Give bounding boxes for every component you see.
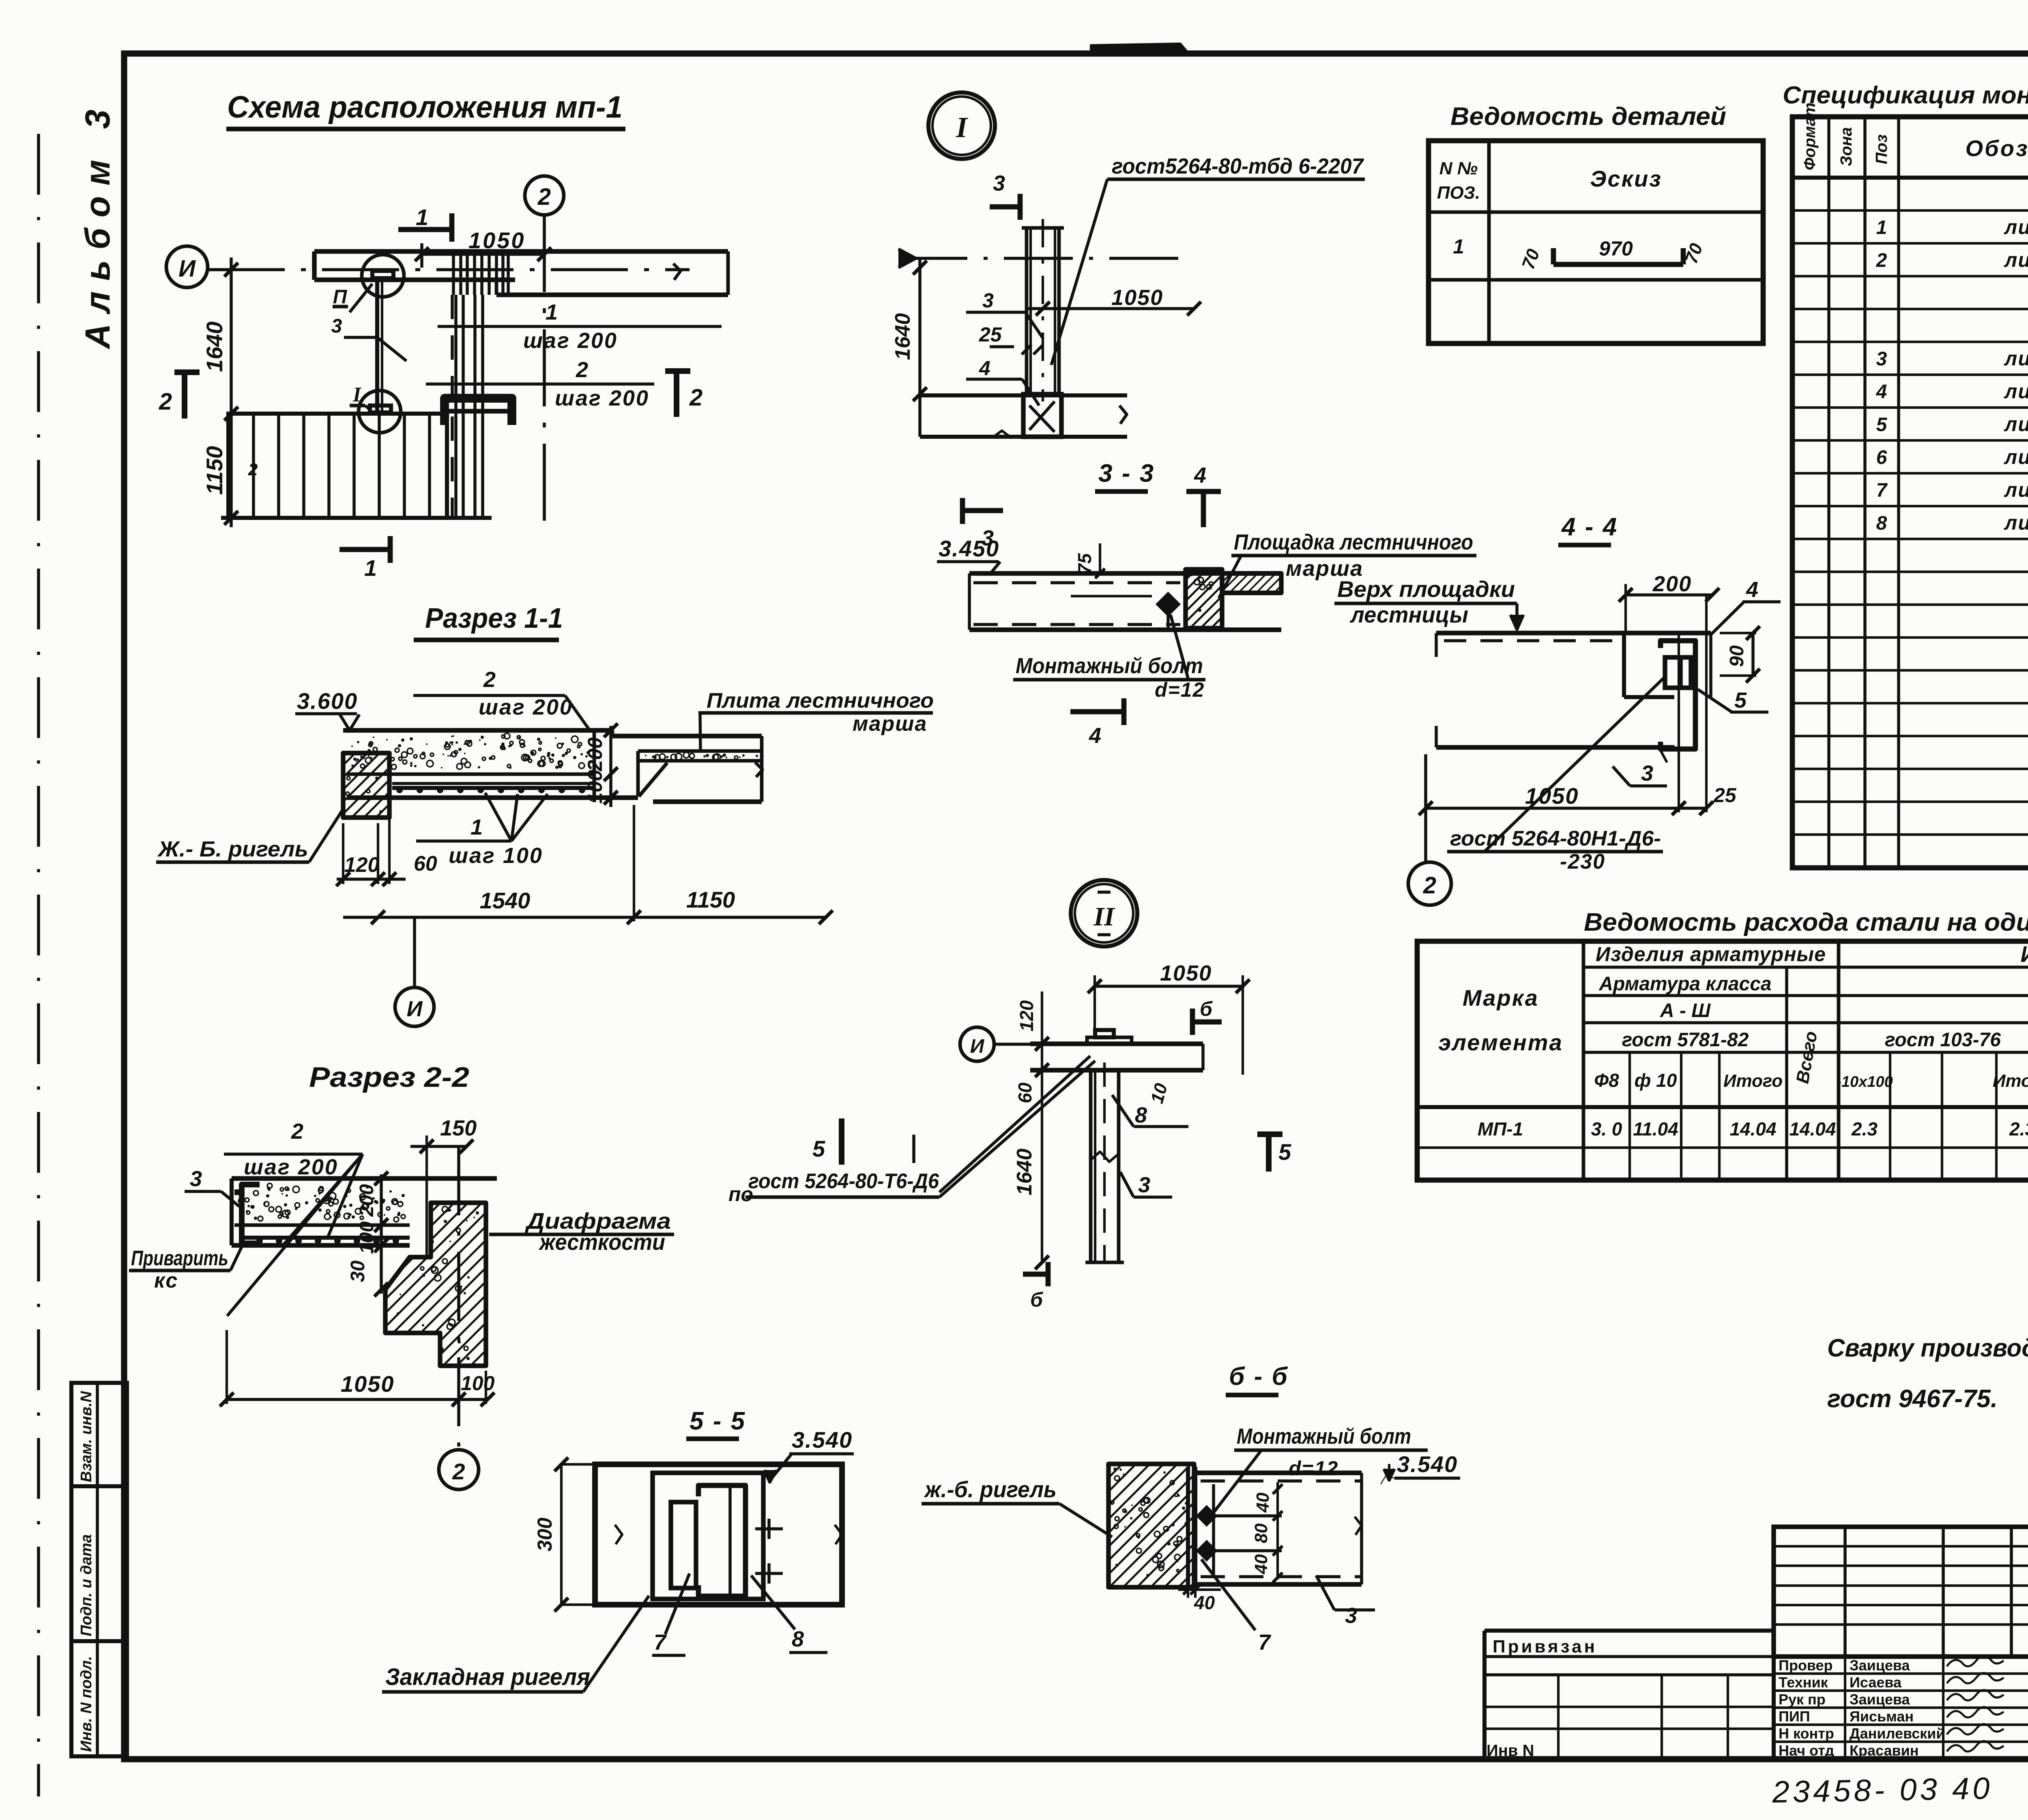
svg-text:1: 1 — [470, 815, 483, 839]
svg-text:А - Ш: А - Ш — [1660, 1000, 1711, 1022]
svg-text:Монтажный болт: Монтажный болт — [1016, 654, 1203, 678]
svg-text:Привязан: Привязан — [1493, 1637, 1597, 1657]
svg-text:5: 5 — [1876, 414, 1888, 436]
svg-text:Взам. инв.N: Взам. инв.N — [78, 1391, 95, 1482]
svg-text:8: 8 — [792, 1627, 804, 1651]
svg-text:100: 100 — [584, 770, 606, 804]
svg-text:120: 120 — [344, 853, 380, 877]
svg-text:100: 100 — [461, 1372, 495, 1395]
svg-text:1540: 1540 — [480, 888, 531, 913]
svg-text:30: 30 — [347, 1260, 369, 1282]
svg-text:Нач отд: Нач отд — [1779, 1742, 1834, 1759]
svg-text:3.450: 3.450 — [939, 536, 999, 561]
svg-text:3: 3 — [1345, 1603, 1357, 1628]
svg-text:лестницы: лестницы — [1349, 602, 1468, 627]
svg-text:1050: 1050 — [1160, 961, 1212, 985]
svg-text:8: 8 — [1135, 1103, 1147, 1127]
svg-text:Заицева: Заицева — [1850, 1657, 1910, 1674]
svg-text:Поз: Поз — [1873, 134, 1891, 164]
svg-text:Исаева: Исаева — [1850, 1674, 1902, 1691]
svg-text:Яисьман: Яисьман — [1850, 1708, 1914, 1725]
svg-text:Формат: Формат — [1801, 103, 1819, 170]
svg-text:Инв N: Инв N — [1487, 1742, 1534, 1760]
svg-text:1640: 1640 — [1013, 1148, 1036, 1195]
svg-text:2: 2 — [159, 388, 172, 415]
svg-text:7: 7 — [1876, 480, 1888, 501]
svg-text:1: 1 — [364, 555, 377, 581]
svg-text:Итого: Итого — [1993, 1071, 2028, 1091]
svg-text:1640: 1640 — [891, 313, 915, 360]
svg-text:5: 5 — [812, 1136, 825, 1161]
svg-text:60: 60 — [414, 852, 437, 876]
svg-text:шаг 200: шаг 200 — [479, 695, 573, 719]
svg-text:4: 4 — [1089, 723, 1101, 748]
svg-text:марша: марша — [853, 712, 927, 736]
svg-text:ПИП: ПИП — [1779, 1708, 1810, 1725]
svg-text:Заицева: Заицева — [1850, 1691, 1910, 1708]
svg-text:23458- 03 40: 23458- 03 40 — [1772, 1771, 1993, 1809]
svg-text:3.540: 3.540 — [792, 1427, 853, 1453]
svg-text:200: 200 — [1652, 572, 1692, 596]
svg-text:Арматура класса: Арматура класса — [1598, 973, 1771, 995]
svg-text:5: 5 — [1734, 688, 1747, 713]
svg-text:гост5264-80-тбд 6-2207: гост5264-80-тбд 6-2207 — [1112, 154, 1364, 178]
svg-text:1150: 1150 — [686, 887, 735, 912]
svg-text:3 - 3: 3 - 3 — [1098, 459, 1155, 487]
svg-text:Схема расположения мп-1: Схема расположения мп-1 — [227, 90, 623, 124]
svg-text:гост 5781-82: гост 5781-82 — [1622, 1029, 1749, 1051]
svg-text:И: И — [178, 255, 196, 282]
svg-text:Провер: Провер — [1779, 1657, 1833, 1674]
svg-text:150: 150 — [440, 1116, 477, 1140]
svg-text:Зона: Зона — [1837, 127, 1855, 166]
svg-text:3.600: 3.600 — [297, 688, 358, 714]
svg-text:2: 2 — [1876, 250, 1887, 271]
svg-text:40: 40 — [1251, 1554, 1271, 1574]
svg-text:II: II — [1093, 902, 1115, 931]
svg-text:Площадка лестничного: Площадка лестничного — [1234, 530, 1473, 554]
svg-text:3: 3 — [1138, 1173, 1150, 1197]
svg-text:Спецификация монолитной ж.-б: Спецификация монолитной ж.-б. лестничной… — [1783, 82, 2028, 109]
svg-text:Ф8: Ф8 — [1594, 1070, 1619, 1091]
svg-text:2.3: 2.3 — [1851, 1118, 1878, 1140]
svg-text:75: 75 — [1074, 553, 1095, 574]
svg-text:ПОЗ.: ПОЗ. — [1437, 183, 1480, 203]
svg-text:3: 3 — [982, 289, 994, 312]
svg-text:гост 9467-75.: гост 9467-75. — [1827, 1385, 1998, 1413]
svg-text:300: 300 — [533, 1517, 556, 1552]
svg-text:Разрез 1-1: Разрез 1-1 — [425, 602, 563, 634]
svg-text:4: 4 — [1746, 577, 1758, 602]
svg-text:Ведомость расхода стали: Ведомость расхода стали на один элемент,… — [1584, 908, 2028, 936]
svg-text:5 - 5: 5 - 5 — [690, 1407, 746, 1435]
svg-text:6: 6 — [1876, 447, 1887, 468]
svg-text:2: 2 — [689, 384, 702, 411]
svg-text:элемента: элемента — [1438, 1030, 1563, 1055]
svg-text:I: I — [956, 111, 969, 144]
svg-text:1050: 1050 — [1111, 285, 1163, 310]
svg-text:-230: -230 — [1560, 850, 1605, 874]
svg-text:2: 2 — [291, 1119, 303, 1144]
svg-text:Верх площадки: Верх площадки — [1337, 576, 1515, 602]
svg-text:d=12: d=12 — [1289, 1457, 1338, 1480]
svg-text:б: б — [1200, 998, 1213, 1020]
svg-text:Техник: Техник — [1779, 1674, 1828, 1691]
svg-text:Приварить: Приварить — [131, 1247, 228, 1270]
svg-text:11.04: 11.04 — [1633, 1118, 1678, 1140]
svg-text:Сварку производить электродам: Сварку производить электродами типа Э-42 — [1827, 1334, 2028, 1362]
svg-text:шаг 200: шаг 200 — [244, 1155, 338, 1179]
svg-text:шаг 200: шаг 200 — [555, 386, 649, 410]
svg-text:ф 10: ф 10 — [1635, 1070, 1677, 1091]
svg-text:d=12: d=12 — [1155, 678, 1205, 701]
svg-text:Эскиз: Эскиз — [1590, 166, 1662, 191]
svg-text:I: I — [352, 383, 362, 406]
svg-text:3: 3 — [993, 171, 1005, 195]
svg-text:шаг 200: шаг 200 — [523, 328, 618, 353]
svg-text:Данилевский: Данилевский — [1850, 1725, 1945, 1742]
svg-text:3: 3 — [1641, 761, 1653, 786]
svg-text:лист 29: лист 29 — [2004, 446, 2028, 468]
svg-text:4 - 4: 4 - 4 — [1561, 513, 1618, 541]
svg-text:25: 25 — [979, 323, 1002, 346]
svg-text:2: 2 — [1423, 872, 1436, 899]
svg-text:3: 3 — [331, 315, 342, 337]
svg-text:И: И — [407, 997, 423, 1021]
svg-text:Альбом 3: Альбом 3 — [78, 99, 117, 350]
svg-text:1: 1 — [1876, 217, 1887, 238]
svg-text:8: 8 — [1876, 513, 1887, 534]
svg-text:7: 7 — [1258, 1630, 1272, 1655]
svg-text:И: И — [970, 1036, 985, 1057]
svg-text:970: 970 — [1599, 237, 1633, 260]
svg-text:П: П — [333, 286, 348, 308]
svg-text:200: 200 — [356, 1184, 378, 1217]
svg-text:Плита лестничного: Плита лестничного — [707, 689, 934, 713]
svg-text:90: 90 — [1726, 645, 1748, 667]
svg-text:4: 4 — [979, 357, 990, 380]
svg-text:гост 103-76: гост 103-76 — [1885, 1029, 2001, 1051]
svg-text:25: 25 — [1713, 784, 1737, 807]
svg-text:Инв. N подл.: Инв. N подл. — [78, 1656, 95, 1752]
svg-text:ж.-б. ригель: ж.-б. ригель — [924, 1477, 1057, 1502]
svg-text:Итого: Итого — [1723, 1071, 1783, 1091]
svg-text:1: 1 — [546, 300, 558, 324]
svg-text:3. 0: 3. 0 — [1591, 1118, 1622, 1140]
svg-text:МП-1: МП-1 — [1478, 1118, 1523, 1140]
svg-text:лист 29: лист 29 — [2004, 347, 2028, 370]
svg-text:Обозначение: Обозначение — [1966, 135, 2028, 161]
svg-text:3: 3 — [1876, 348, 1887, 370]
svg-text:5: 5 — [1278, 1139, 1291, 1165]
svg-text:1050: 1050 — [341, 1371, 395, 1397]
svg-text:2: 2 — [576, 358, 588, 382]
svg-text:-10х100: -10х100 — [1836, 1073, 1893, 1090]
svg-text:2: 2 — [452, 1459, 465, 1484]
svg-text:лист 29: лист 29 — [2004, 413, 2028, 436]
svg-text:лист 29: лист 29 — [2004, 479, 2028, 501]
svg-text:б: б — [1030, 1288, 1044, 1311]
svg-text:жесткости: жесткости — [538, 1229, 665, 1255]
svg-text:Изделия арматурные: Изделия арматурные — [1596, 943, 1826, 966]
svg-text:120: 120 — [1016, 1000, 1037, 1031]
svg-text:кс: кс — [154, 1269, 178, 1292]
svg-text:гост 5264-80Н1-Д6-: гост 5264-80Н1-Д6- — [1450, 827, 1661, 850]
svg-text:Изделия закладные: Изделия закладные — [2020, 941, 2028, 967]
svg-text:2: 2 — [537, 184, 551, 210]
svg-text:Ведомость деталей: Ведомость деталей — [1450, 103, 1726, 131]
svg-text:лист 29: лист 29 — [2004, 511, 2028, 534]
svg-text:шаг 100: шаг 100 — [449, 843, 543, 868]
svg-text:Н контр: Н контр — [1779, 1725, 1834, 1742]
svg-text:60: 60 — [1014, 1082, 1035, 1103]
svg-text:4: 4 — [1194, 463, 1206, 487]
svg-text:лист 29: лист 29 — [2004, 216, 2028, 238]
svg-text:гост 5264-80-Т6-Д6: гост 5264-80-Т6-Д6 — [748, 1170, 939, 1193]
svg-text:Рук пр: Рук пр — [1779, 1691, 1826, 1708]
svg-text:Марка: Марка — [1463, 985, 1539, 1011]
svg-text:2: 2 — [483, 667, 496, 692]
svg-text:Красавин: Красавин — [1850, 1742, 1918, 1759]
svg-text:1640: 1640 — [202, 322, 227, 372]
svg-text:3.540: 3.540 — [1397, 1451, 1458, 1477]
svg-text:14.04: 14.04 — [1789, 1118, 1836, 1140]
svg-text:лист 29: лист 29 — [2004, 249, 2028, 271]
svg-text:Ж.- Б. ригель: Ж.- Б. ригель — [157, 837, 308, 861]
svg-text:Монтажный болт: Монтажный болт — [1237, 1424, 1411, 1449]
svg-text:40: 40 — [1194, 1592, 1215, 1613]
svg-text:200: 200 — [584, 737, 606, 772]
svg-text:1150: 1150 — [202, 446, 227, 495]
svg-text:80: 80 — [1251, 1523, 1271, 1543]
svg-text:б - б: б - б — [1229, 1363, 1289, 1391]
svg-text:1: 1 — [416, 204, 428, 230]
svg-text:14.04: 14.04 — [1729, 1118, 1776, 1140]
svg-text:2.3: 2.3 — [2009, 1118, 2028, 1140]
svg-text:Подп. и дата: Подп. и дата — [78, 1534, 95, 1636]
svg-text:Разрез 2-2: Разрез 2-2 — [309, 1061, 469, 1093]
svg-text:4: 4 — [1876, 381, 1887, 403]
svg-text:100: 100 — [356, 1221, 378, 1254]
svg-text:1: 1 — [1453, 235, 1464, 258]
svg-text:Закладная ригеля: Закладная ригеля — [385, 1664, 590, 1690]
svg-text:2: 2 — [248, 460, 258, 479]
svg-text:40: 40 — [1253, 1492, 1273, 1513]
svg-text:лист 29: лист 29 — [2004, 380, 2028, 403]
svg-text:3: 3 — [190, 1167, 202, 1191]
svg-text:N №: N № — [1439, 159, 1478, 178]
